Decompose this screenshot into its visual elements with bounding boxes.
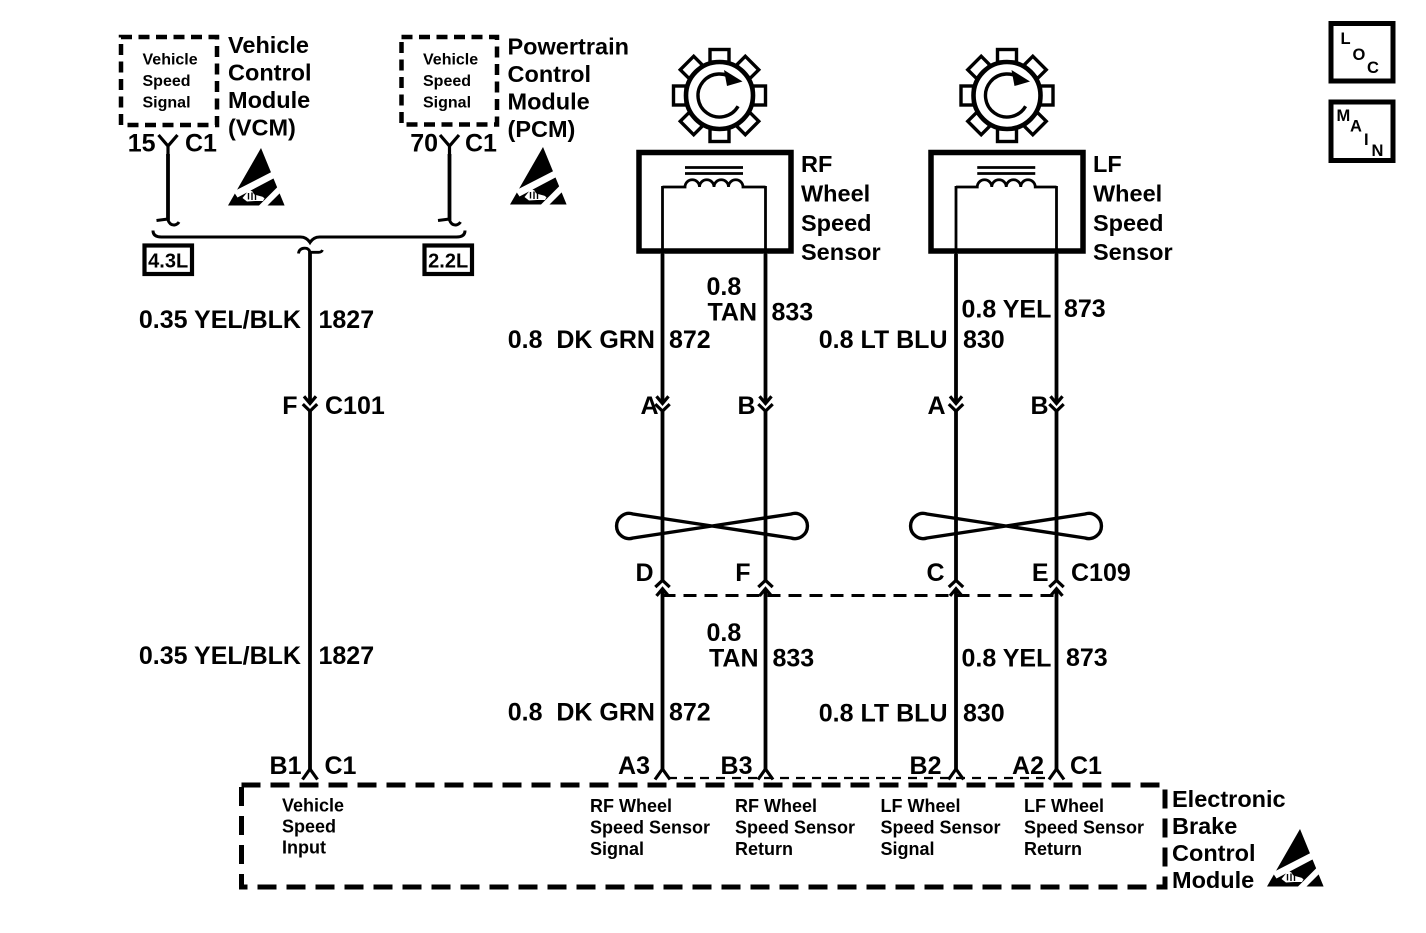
svg-text:Module: Module [228,87,310,113]
svg-text:(VCM): (VCM) [228,115,296,141]
svg-text:873: 873 [1066,644,1108,672]
svg-text:C1: C1 [325,752,357,780]
wire 833 lower (RF) [764,589,768,771]
svg-text:C101: C101 [325,392,385,420]
svg-text:F: F [735,559,750,587]
wire 833 upper (RF return) [764,254,768,403]
svg-text:2.2L: 2.2L [428,251,468,273]
wire 872 lower (RF) [661,589,665,771]
svg-text:D: D [635,559,653,587]
svg-text:L: L [1341,30,1351,48]
svg-text:830: 830 [963,326,1005,354]
wire end hook PCM [438,219,450,221]
ESD symbol PCM [510,147,567,205]
wire 872 upper (RF signal) [661,254,665,403]
wire from PCM pin 70 [448,154,452,220]
svg-text:Control: Control [1172,840,1256,866]
svg-text:15: 15 [128,130,156,158]
svg-text:N: N [1372,142,1384,160]
svg-text:B2: B2 [910,752,942,780]
svg-text:Control: Control [508,61,592,87]
svg-text:Speed Sensor: Speed Sensor [881,818,1001,838]
svg-text:0.35 YEL/BLK: 0.35 YEL/BLK [139,642,301,670]
svg-text:0.8 DK GRN: 0.8 DK GRN [508,326,655,354]
svg-text:Signal: Signal [881,839,935,859]
svg-text:Signal: Signal [143,95,191,112]
svg-text:LF Wheel: LF Wheel [1024,796,1104,816]
svg-text:873: 873 [1064,295,1106,323]
svg-text:C109: C109 [1071,559,1131,587]
svg-text:Vehicle: Vehicle [423,52,478,69]
module PCM dashed box [402,37,498,125]
svg-text:Vehicle: Vehicle [282,796,344,816]
svg-text:TAN: TAN [709,645,759,673]
svg-text:Speed: Speed [143,73,191,90]
twisted pair LF [911,513,1102,538]
svg-text:Control: Control [228,60,312,86]
svg-text:0.8: 0.8 [707,619,742,647]
pin fork B3 [758,769,773,780]
svg-text:4.3L: 4.3L [148,251,188,273]
svg-text:Speed: Speed [801,210,872,236]
svg-text:0.8: 0.8 [707,273,742,301]
svg-text:RF Wheel: RF Wheel [590,796,672,816]
MAIN tag box [1331,102,1393,161]
svg-text:A: A [927,392,945,420]
wire from VCM pin 15 [166,154,170,220]
svg-text:Vehicle: Vehicle [143,52,198,69]
module VCM dashed box [121,37,217,125]
svg-text:0.8 YEL: 0.8 YEL [962,296,1052,324]
svg-text:Speed Sensor: Speed Sensor [735,818,855,838]
svg-text:Speed Sensor: Speed Sensor [590,818,710,838]
pin fork A2 [1049,769,1064,780]
wire 830 upper (LF signal) [954,254,958,403]
svg-text:872: 872 [669,326,711,354]
connector E symbol [1049,580,1063,587]
wire 873 mid (LF) [1055,411,1059,581]
svg-text:(PCM): (PCM) [508,116,576,142]
wire 1827 upper segment [308,251,312,403]
svg-text:70: 70 [410,130,438,158]
tone ring LF [961,50,1053,142]
svg-text:Wheel: Wheel [1093,181,1162,207]
connector A (RF) symbol [657,396,669,403]
svg-text:A3: A3 [618,752,650,780]
svg-text:1827: 1827 [319,642,375,670]
svg-text:Speed: Speed [282,817,336,837]
svg-text:Speed Sensor: Speed Sensor [1024,818,1144,838]
engine tag 4.3L box [145,246,193,275]
svg-text:Module: Module [1172,867,1254,893]
svg-text:Brake: Brake [1172,813,1237,839]
wire 873 lower (LF) [1055,589,1059,771]
pin fork VCM-15 [159,135,178,156]
svg-text:C: C [1367,59,1379,77]
svg-text:C1: C1 [1070,752,1102,780]
connector B (RF) symbol [760,396,772,403]
svg-text:F: F [282,392,297,420]
svg-text:RF: RF [801,151,832,177]
svg-text:833: 833 [772,299,814,327]
wire end hook VCM [157,219,169,221]
connector D symbol [655,580,669,587]
svg-text:A: A [640,392,658,420]
wire 833 mid (RF) [764,411,768,581]
connector F symbol [758,580,772,587]
svg-text:C1: C1 [465,130,497,158]
twisted pair RF [617,513,808,538]
svg-text:Wheel: Wheel [801,181,870,207]
bus brace [153,231,465,243]
svg-text:RF Wheel: RF Wheel [735,796,817,816]
svg-text:Sensor: Sensor [801,239,881,265]
svg-text:Vehicle: Vehicle [228,32,309,58]
pin fork PCM-70 [440,135,459,156]
svg-text:Input: Input [282,838,326,858]
LOC tag box [1331,24,1393,82]
svg-text:Return: Return [735,839,793,859]
RF wheel speed sensor box [639,153,791,252]
connector C101 symbol [304,396,316,403]
svg-text:LF Wheel: LF Wheel [881,796,961,816]
connector A (LF) symbol [950,396,962,403]
svg-text:TAN: TAN [708,299,758,327]
pin fork B2 [949,769,964,780]
svg-text:872: 872 [669,699,711,727]
svg-text:Sensor: Sensor [1093,239,1173,265]
ESD symbol EBCM [1267,829,1324,887]
svg-text:B1: B1 [270,752,302,780]
svg-text:I: I [1364,131,1369,149]
svg-text:Module: Module [508,89,590,115]
wire 872 mid (RF) [661,411,665,581]
connector B (LF) symbol [1051,396,1063,403]
svg-text:LF: LF [1093,151,1122,177]
svg-text:Speed: Speed [1093,210,1164,236]
wire 830 mid (LF) [954,411,958,581]
svg-text:M: M [1337,107,1351,125]
svg-text:Signal: Signal [423,95,471,112]
svg-text:A: A [1350,118,1362,136]
EBCM dashed box [242,785,1166,887]
connector C symbol [949,580,963,587]
wire 1827 lower segment [308,411,312,771]
svg-text:Powertrain: Powertrain [508,34,629,60]
engine tag 2.2L box [425,246,473,275]
svg-text:C1: C1 [185,130,217,158]
pin fork A3 [655,769,670,780]
svg-text:0.8 DK GRN: 0.8 DK GRN [508,699,655,727]
svg-text:830: 830 [963,700,1005,728]
svg-text:0.8 LT BLU: 0.8 LT BLU [819,700,948,728]
svg-text:0.8 YEL: 0.8 YEL [962,645,1052,673]
wire 873 upper (LF return) [1055,254,1059,403]
svg-text:1827: 1827 [319,306,375,334]
tone ring RF [674,50,766,142]
svg-text:Electronic: Electronic [1172,786,1286,812]
splice hook on wire 1827 [299,248,323,253]
svg-text:Signal: Signal [590,839,644,859]
svg-text:833: 833 [773,645,815,673]
svg-text:E: E [1032,559,1049,587]
svg-text:0.35 YEL/BLK: 0.35 YEL/BLK [139,306,301,334]
svg-text:Return: Return [1024,839,1082,859]
svg-text:B: B [737,392,755,420]
pin fork B1 [303,769,318,780]
LF wheel speed sensor box [931,153,1083,252]
pin pair dashed line [668,777,1051,779]
svg-text:B: B [1030,392,1048,420]
wire 830 lower (LF) [954,589,958,771]
svg-text:A2: A2 [1012,752,1044,780]
svg-text:C: C [926,559,944,587]
C109 inline dashed link [663,594,1057,597]
svg-text:O: O [1353,46,1366,64]
svg-text:0.8 LT BLU: 0.8 LT BLU [819,326,948,354]
ESD symbol VCM [228,148,285,206]
svg-text:Speed: Speed [423,73,471,90]
svg-text:B3: B3 [721,752,753,780]
